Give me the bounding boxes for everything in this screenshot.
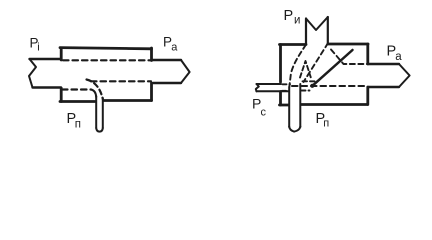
pipe bottom edge inside box, left part (dashed) <box>62 88 91 90</box>
label Pn (left figure) <box>67 111 82 131</box>
branch elbow outer wall (dashed curve) <box>87 80 103 100</box>
supply pipe Pи walls (top nozzle) <box>306 17 328 44</box>
vent tube to Pn (left figure) <box>96 96 103 132</box>
label Pn (right figure) <box>316 111 330 130</box>
jet cone (dashed lambda) <box>300 61 311 78</box>
svg-text:P: P <box>284 8 294 24</box>
control channel Pc (solid, outside box) <box>256 84 289 91</box>
lever / adjustment arrow <box>314 50 353 85</box>
svg-text:п: п <box>75 119 81 131</box>
svg-text:a: a <box>171 42 178 54</box>
output channel bottom edge (dashed) <box>292 85 367 87</box>
supply pipe break (zigzag top end) <box>306 17 328 30</box>
pipe Pa bottom edge (solid) <box>153 82 181 84</box>
svg-text:с: с <box>261 107 267 119</box>
receiver mouth upper lip (dashed) <box>331 50 367 65</box>
lever pivot dot <box>310 84 314 88</box>
diffuser throat edge (short dashed) <box>303 80 317 82</box>
right element body (box) <box>280 44 369 105</box>
pipe bottom edge left (solid) <box>33 86 62 88</box>
output pipe Pa arrow head <box>399 64 410 87</box>
vent tube Pn (right figure) <box>289 84 300 132</box>
pipe Pa top edge (solid, right of box) <box>152 59 181 61</box>
svg-text:i: i <box>37 42 39 54</box>
left element body (box) <box>60 48 152 102</box>
pipe Pi top edge (solid, left of box) <box>30 58 62 60</box>
branch elbow inner wall <box>91 90 96 98</box>
pipe Pa arrow head <box>181 60 190 83</box>
pipe top edge inside box (dashed) <box>63 59 151 61</box>
label Pc <box>252 96 267 119</box>
label Pи <box>284 8 301 27</box>
svg-text:и: и <box>294 15 300 27</box>
label Pa (right figure) <box>387 44 403 64</box>
pipe bottom edge inside box, right part (dashed) <box>91 80 151 82</box>
label Pa (left figure) <box>163 35 178 54</box>
output pipe Pa (right figure) <box>368 64 399 87</box>
label Pi <box>30 36 40 54</box>
pipe left break (zigzag end) <box>29 59 36 88</box>
svg-text:a: a <box>395 51 402 63</box>
control channel Pc continuation (dashed) <box>282 84 310 91</box>
svg-text:п: п <box>323 118 329 130</box>
nozzle left wall inside box (dashed curve to vent tube) <box>289 45 306 88</box>
nozzle right wall inside box (dashed curve) <box>304 43 329 82</box>
